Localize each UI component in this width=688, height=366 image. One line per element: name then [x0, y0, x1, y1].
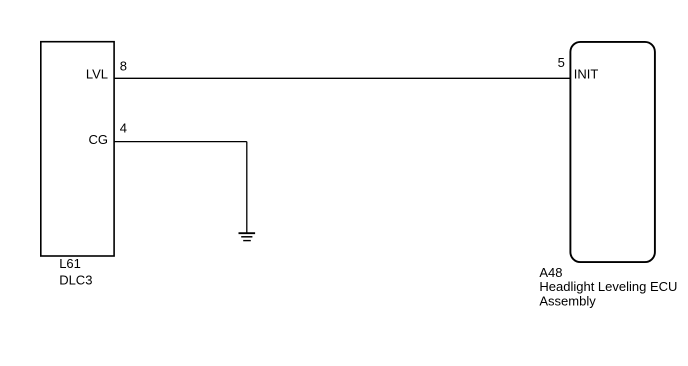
svg-text:Headlight Leveling ECU: Headlight Leveling ECU — [539, 279, 677, 294]
svg-text:4: 4 — [120, 121, 127, 136]
svg-text:LVL: LVL — [86, 67, 108, 82]
wire CG vertical — [246, 142, 248, 233]
svg-text:5: 5 — [558, 55, 565, 70]
svg-text:8: 8 — [120, 59, 127, 74]
svg-text:INIT: INIT — [574, 67, 599, 82]
ECU A48 box — [570, 42, 655, 262]
svg-text:A48: A48 — [539, 265, 562, 280]
svg-text:CG: CG — [89, 132, 109, 147]
wire LVL to INIT — [114, 77, 570, 79]
svg-text:L61: L61 — [59, 256, 81, 271]
connector L61 DLC3 box — [41, 42, 114, 256]
ground symbol — [239, 233, 256, 240]
svg-text:Assembly: Assembly — [539, 294, 596, 309]
svg-text:DLC3: DLC3 — [59, 272, 92, 287]
wire CG horizontal — [114, 141, 247, 143]
